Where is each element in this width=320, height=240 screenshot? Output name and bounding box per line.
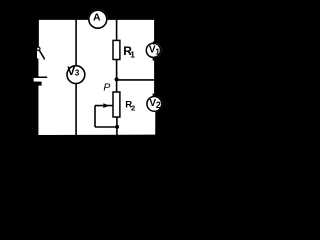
wiper arrowhead <box>103 103 109 108</box>
ammeter U A circle <box>89 10 107 28</box>
switch blade <box>39 50 44 58</box>
wire V1 bottom stub <box>152 57 154 61</box>
wire node to V branch <box>117 79 156 81</box>
wire V1-V2 (merged with page edge) <box>154 58 156 97</box>
voltmeter V1 disc <box>146 42 162 58</box>
resistor R2 box (potentiometer) <box>113 92 120 117</box>
wire R1-R2 middle <box>116 60 118 93</box>
switch blade foot <box>43 58 45 60</box>
voltmeter V3 circle <box>67 66 85 84</box>
resistor R1 box <box>113 40 120 59</box>
wire V2 top stub <box>152 94 154 98</box>
junction dot wiper to bottom <box>115 125 119 129</box>
junction dot node between R1 and R2 <box>115 77 119 81</box>
svg-text:2: 2 <box>131 103 135 112</box>
wire V3 branch upper <box>75 19 77 65</box>
battery long plate <box>34 77 47 79</box>
ammeter A disc <box>88 9 108 29</box>
battery notch (white gap between plates) <box>34 78 38 82</box>
wire left branch upper <box>37 19 39 47</box>
wire wiper leg <box>94 106 96 127</box>
wire V3 branch lower <box>75 84 77 135</box>
svg-text:1: 1 <box>155 46 160 56</box>
svg-text:3: 3 <box>75 69 80 78</box>
wire left branch lower <box>37 86 39 136</box>
wire wiper horizontal <box>95 105 113 107</box>
black photo background <box>0 0 178 162</box>
voltmeter V1 circle <box>146 43 160 57</box>
svg-text:P: P <box>103 82 110 94</box>
svg-text:2: 2 <box>156 100 161 110</box>
voltmeter V3 disc <box>66 65 85 84</box>
wire R branch top <box>116 19 118 41</box>
white page area <box>37 20 156 135</box>
voltmeter V2 disc <box>146 96 162 112</box>
svg-text:A: A <box>93 12 101 24</box>
voltmeter V2 circle <box>147 97 162 112</box>
wire R branch bottom <box>116 117 118 135</box>
wire left branch mid <box>37 59 39 77</box>
wire V branch top (merged with page edge) <box>154 19 156 43</box>
switch S pivot <box>37 47 40 50</box>
svg-text:1: 1 <box>130 50 135 60</box>
wire V1 top stub <box>153 42 155 45</box>
wire wiper bottom <box>95 126 118 128</box>
battery short plate <box>34 82 42 86</box>
